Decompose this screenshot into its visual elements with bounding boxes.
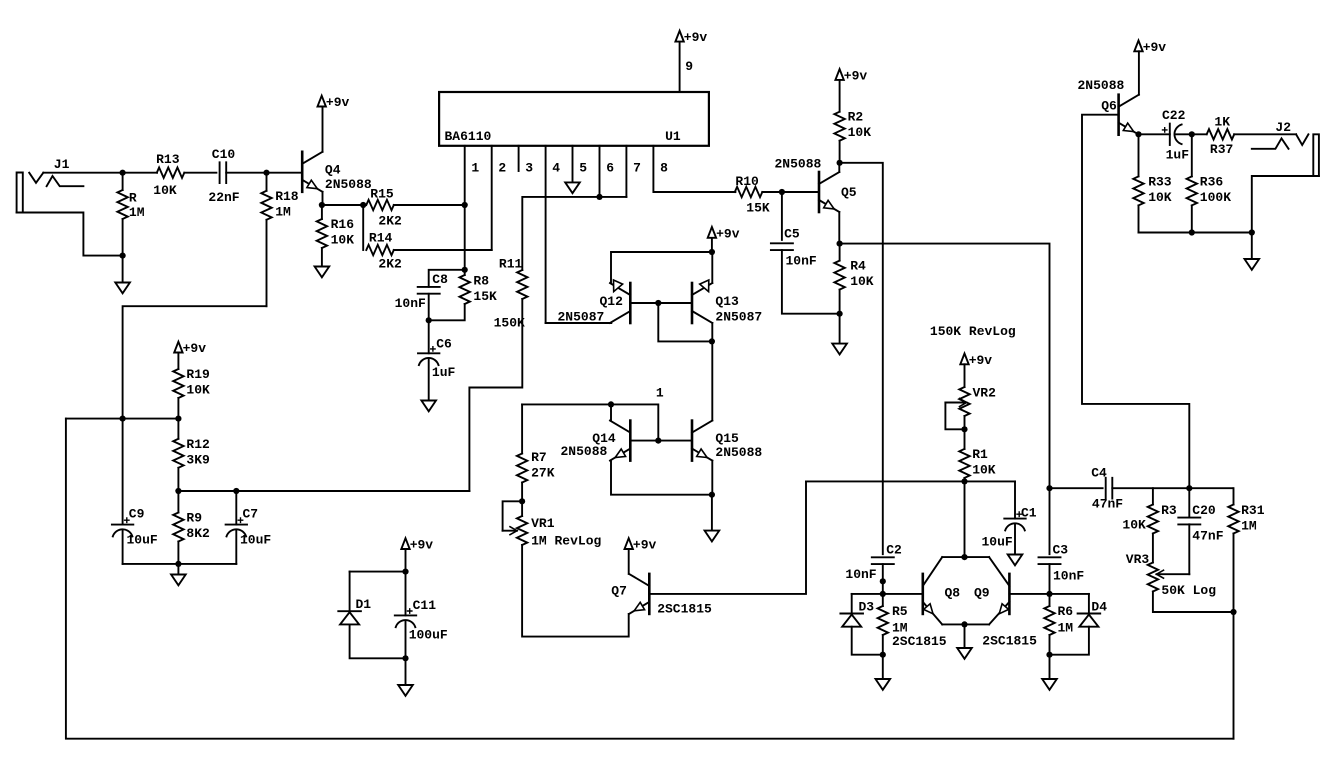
node Q12-Q13 base	[655, 300, 661, 306]
node filter top	[402, 569, 408, 575]
label R1	[972, 447, 996, 478]
node A junction	[120, 170, 126, 176]
node R4 bottom	[837, 311, 843, 317]
svg-text:15K: 15K	[473, 289, 497, 304]
resistor R31	[1228, 488, 1238, 612]
node Q9 base	[1046, 591, 1052, 597]
power +9v Q6	[1134, 40, 1166, 55]
svg-text:9: 9	[685, 59, 693, 74]
svg-text:2SC1815: 2SC1815	[657, 601, 712, 616]
svg-text:10K: 10K	[153, 183, 177, 198]
node R36 bottom	[1189, 229, 1195, 235]
svg-text:1uF: 1uF	[1166, 148, 1190, 163]
svg-text:4: 4	[552, 161, 560, 176]
node emitter rail	[709, 492, 715, 498]
svg-text:2N5088: 2N5088	[325, 177, 372, 192]
resistor R5	[878, 594, 888, 655]
pin 6	[600, 146, 615, 197]
svg-text:7: 7	[633, 161, 641, 176]
wire LFO node horizontal	[806, 480, 1015, 482]
wire Q13 collector to Q15 collector	[711, 323, 713, 421]
svg-text:+9v: +9v	[684, 30, 708, 45]
svg-text:D1: D1	[356, 597, 372, 612]
label C11	[409, 598, 448, 643]
label R8	[473, 273, 497, 304]
ground Q14-Q15	[705, 495, 720, 542]
label R7	[531, 450, 555, 481]
node C5 top	[779, 189, 785, 195]
connector J1 tip contact	[29, 173, 43, 183]
node C2 below	[880, 578, 886, 584]
resistor R6	[1044, 594, 1054, 655]
label R3	[1122, 503, 1177, 533]
resistor R33	[1133, 134, 1143, 232]
wire Q5 collector	[838, 163, 840, 172]
label C3	[1053, 543, 1085, 584]
label C9	[127, 506, 158, 547]
power +9v R19	[174, 341, 206, 356]
svg-text:10K: 10K	[1148, 190, 1172, 205]
label net 1	[656, 386, 664, 401]
transistor Q8	[923, 557, 942, 624]
resistor R7	[517, 404, 527, 501]
label D1	[356, 597, 372, 612]
svg-text:2SC1815: 2SC1815	[982, 633, 1037, 648]
svg-text:1M: 1M	[1058, 621, 1074, 636]
connector J1 body	[17, 173, 23, 213]
svg-text:+9v: +9v	[410, 538, 434, 553]
svg-text:10nF: 10nF	[1053, 569, 1084, 584]
wire Q6 base feedback	[1082, 115, 1189, 489]
svg-text:10uF: 10uF	[982, 534, 1013, 549]
resistor R4	[834, 244, 844, 314]
node R6 bottom	[1046, 652, 1052, 658]
svg-text:R15: R15	[370, 186, 394, 201]
wire Q4 collector to +9v	[322, 107, 324, 152]
wire J2 sleeve	[1252, 176, 1319, 233]
node Q5 emitter	[837, 241, 843, 247]
svg-text:47nF: 47nF	[1092, 497, 1123, 512]
label C8	[395, 272, 449, 311]
wire pair top rail	[942, 556, 989, 558]
label Q15	[715, 431, 762, 460]
transistor Q12	[610, 280, 630, 323]
wire J1 tip to node A	[43, 172, 157, 174]
wire Q12 collector to pin4	[546, 322, 611, 324]
node Q5 collector	[837, 160, 843, 166]
svg-text:8K2: 8K2	[186, 526, 210, 541]
ground R9	[171, 564, 186, 585]
svg-text:27K: 27K	[531, 466, 555, 481]
transistor Q15	[692, 421, 712, 461]
svg-text:Q7: Q7	[611, 584, 627, 599]
svg-text:8: 8	[660, 161, 668, 176]
label R37	[1210, 114, 1233, 157]
svg-text:J1: J1	[54, 157, 70, 172]
connector J2 ring contact	[1252, 138, 1289, 148]
wire left rail	[66, 419, 1234, 739]
svg-text:Q9: Q9	[974, 586, 990, 601]
transistor Q4	[302, 152, 322, 192]
label Q12	[558, 294, 624, 324]
svg-text:Q6: Q6	[1101, 98, 1117, 113]
svg-text:3: 3	[525, 161, 533, 176]
transistor Q13	[692, 280, 712, 323]
resistor R19	[173, 353, 183, 419]
svg-text:1M: 1M	[129, 205, 145, 220]
node C10-R18	[263, 170, 269, 176]
svg-text:R13: R13	[156, 152, 180, 167]
label VR1	[531, 516, 601, 549]
label J1	[54, 157, 70, 172]
label R33	[1148, 175, 1172, 206]
ground C1	[1008, 555, 1023, 566]
svg-text:1M: 1M	[275, 205, 291, 220]
svg-text:+9v: +9v	[183, 341, 207, 356]
svg-text:J2: J2	[1275, 120, 1291, 135]
wire J1 sleeve to ground node	[17, 213, 123, 256]
svg-text:VR1: VR1	[531, 516, 555, 531]
node R12 bottom	[175, 488, 181, 494]
svg-text:2N5088: 2N5088	[561, 444, 608, 459]
op-amp U1 BA6110 body	[439, 92, 709, 146]
svg-text:2: 2	[498, 161, 506, 176]
wire Q15 emitter	[711, 461, 713, 495]
resistor R13	[157, 168, 217, 178]
node C7 top	[233, 488, 239, 494]
ground R16	[315, 267, 330, 278]
svg-text:47nF: 47nF	[1192, 529, 1223, 544]
capacitor C8	[418, 270, 465, 321]
wire filter top to D1	[350, 571, 406, 573]
wire volume to bottom rail	[1233, 612, 1235, 739]
power +9v mirror	[708, 226, 740, 252]
resistor R18	[261, 173, 271, 307]
node VR2 bottom	[961, 426, 967, 432]
diode D1	[338, 572, 405, 659]
resistor R1	[959, 429, 969, 481]
node R9 bottom	[175, 561, 181, 567]
svg-text:U1: U1	[665, 129, 681, 144]
svg-text:10K: 10K	[848, 125, 872, 140]
capacitor C2	[872, 557, 894, 594]
connector J2 body	[1313, 134, 1319, 176]
wire Q4 emitter to R15 node	[322, 204, 363, 206]
label Q8 type	[892, 634, 947, 649]
svg-text:22nF: 22nF	[208, 190, 239, 205]
svg-text:R16: R16	[331, 217, 355, 232]
svg-text:1: 1	[656, 386, 664, 401]
pin 9	[680, 42, 694, 92]
label C1	[982, 506, 1037, 550]
wire C9 to ground rail	[123, 563, 237, 565]
svg-text:C4: C4	[1091, 465, 1107, 480]
svg-text:R11: R11	[499, 257, 523, 272]
wire output ground rail	[1139, 232, 1252, 234]
svg-text:150K: 150K	[494, 316, 525, 331]
wire base node to Q13 collector	[658, 303, 712, 341]
svg-text:VR2: VR2	[973, 386, 997, 401]
svg-text:2SC1815: 2SC1815	[892, 634, 947, 649]
svg-text:C5: C5	[784, 227, 800, 242]
svg-text:2K2: 2K2	[378, 214, 402, 229]
svg-text:10nF: 10nF	[395, 296, 426, 311]
label J2	[1275, 120, 1291, 135]
svg-text:R19: R19	[186, 367, 210, 382]
svg-text:C11: C11	[413, 598, 437, 613]
svg-text:150K RevLog: 150K RevLog	[930, 324, 1016, 339]
svg-text:50K Log: 50K Log	[1161, 583, 1216, 598]
ground filter	[398, 658, 413, 696]
resistor R8	[429, 270, 470, 321]
label VR2 value	[930, 324, 1016, 339]
capacitor C10	[220, 162, 267, 183]
svg-text:R9: R9	[186, 511, 202, 526]
svg-text:+9v: +9v	[969, 353, 993, 368]
label Q5	[775, 156, 857, 200]
power +9v R2	[835, 68, 867, 83]
transistor Q7	[629, 574, 649, 614]
node J2 sleeve ground	[1249, 229, 1255, 235]
resistor R	[117, 173, 127, 256]
label Q14	[561, 431, 616, 459]
capacitor C3	[1039, 557, 1061, 594]
svg-text:Q13: Q13	[715, 294, 739, 309]
svg-text:+9v: +9v	[1143, 40, 1167, 55]
label Q7	[611, 584, 712, 617]
svg-text:Q12: Q12	[600, 294, 624, 309]
svg-text:C6: C6	[436, 336, 452, 351]
ground R6	[1042, 655, 1057, 690]
wire pin6-7 to R11	[522, 197, 626, 270]
svg-text:C22: C22	[1162, 108, 1186, 123]
wire bias node horizontal	[66, 418, 178, 420]
label Q9 type	[982, 633, 1037, 648]
svg-text:+9v: +9v	[844, 68, 868, 83]
label C5	[784, 227, 817, 269]
diode D3	[840, 594, 882, 655]
capacitor C20	[1178, 488, 1200, 524]
svg-text:10K: 10K	[850, 274, 874, 289]
svg-text:Q5: Q5	[841, 185, 857, 200]
svg-text:R8: R8	[473, 273, 489, 288]
label D4	[1091, 599, 1107, 614]
potentiometer VR2	[945, 364, 969, 429]
svg-text:R31: R31	[1241, 503, 1265, 518]
capacitor C4	[1106, 478, 1233, 499]
label R10	[735, 174, 770, 215]
transistor Q9	[989, 557, 1009, 624]
svg-text:+9v: +9v	[716, 226, 740, 241]
svg-text:1: 1	[471, 161, 479, 176]
label R12	[186, 437, 210, 468]
node Q8 base	[880, 591, 886, 597]
wire Q5 emitter	[838, 212, 840, 244]
wire Q14 base rail	[630, 440, 692, 442]
label R11	[494, 257, 525, 331]
label R31	[1241, 503, 1265, 534]
svg-text:R1: R1	[972, 447, 988, 462]
wire Q14 collector	[610, 404, 612, 420]
svg-text:R4: R4	[850, 258, 866, 273]
node pair emitter	[961, 621, 967, 627]
resistor R10	[735, 187, 819, 197]
potentiometer VR1	[503, 501, 528, 545]
node volume bottom	[1230, 609, 1236, 615]
node R19 bottom	[175, 416, 181, 422]
label Q4	[325, 162, 372, 192]
label C6	[432, 336, 456, 379]
svg-text:C7: C7	[243, 506, 259, 521]
wire Q9 base	[1009, 593, 1089, 595]
node pin6	[596, 194, 602, 200]
wire R18 bottom to bias node	[123, 306, 267, 418]
label R14	[369, 231, 402, 272]
svg-text:10K: 10K	[186, 383, 210, 398]
pin 2	[492, 146, 507, 250]
resistor R9	[173, 491, 183, 564]
resistor R3	[1148, 488, 1158, 562]
svg-text:10K: 10K	[331, 233, 355, 248]
node C9 top	[120, 416, 126, 422]
wire R12 node to R11	[178, 490, 469, 492]
power +9v VR2	[960, 353, 992, 368]
svg-text:100K: 100K	[1200, 190, 1231, 205]
label D3	[859, 599, 875, 614]
svg-text:R33: R33	[1148, 175, 1172, 190]
wire C10 node to Q4 base	[267, 172, 303, 174]
power +9v D1	[401, 538, 433, 553]
capacitor C22	[1139, 124, 1192, 145]
capacitor C9	[112, 419, 133, 564]
node R15-R14 left	[360, 202, 366, 208]
capacitor C11	[395, 572, 416, 659]
resistor R12	[173, 419, 183, 491]
label C20	[1192, 503, 1223, 544]
wire Q4 emitter down	[322, 192, 324, 205]
svg-text:R3: R3	[1161, 503, 1177, 518]
svg-text:C20: C20	[1192, 503, 1216, 518]
node Q14-Q15 base	[655, 438, 661, 444]
svg-text:1K: 1K	[1214, 114, 1230, 129]
wire +9v rail Q12-Q13	[611, 251, 712, 253]
svg-text:Q15: Q15	[715, 431, 739, 446]
node Q4 emitter	[319, 202, 325, 208]
svg-text:R12: R12	[186, 437, 210, 452]
svg-text:1M RevLog: 1M RevLog	[531, 534, 601, 549]
wire Q6 collector	[1138, 51, 1140, 94]
wire pair bottom rail	[942, 623, 989, 625]
svg-text:R10: R10	[735, 174, 759, 189]
svg-text:15K: 15K	[746, 201, 770, 216]
transistor Q6	[1119, 95, 1139, 135]
svg-text:2K2: 2K2	[378, 257, 402, 272]
label C10	[208, 147, 239, 205]
wire VR1 bottom to Q7 emitter	[522, 545, 629, 637]
node filter bottom	[402, 655, 408, 661]
svg-text:1uF: 1uF	[432, 365, 456, 380]
pin 3	[519, 146, 534, 176]
svg-text:1M: 1M	[892, 621, 908, 636]
resistor R2	[834, 80, 844, 163]
label VR2	[973, 386, 997, 401]
ground R5	[876, 655, 891, 690]
pin 8	[653, 146, 735, 192]
svg-text:100uF: 100uF	[409, 628, 448, 643]
node below R	[120, 253, 126, 259]
resistor R11	[469, 270, 527, 491]
label R9	[186, 511, 210, 542]
svg-text:3K9: 3K9	[186, 452, 210, 467]
label R15	[370, 186, 402, 228]
transistor Q14	[610, 421, 630, 461]
svg-text:10K: 10K	[972, 462, 996, 477]
label R18	[275, 189, 299, 219]
resistor R37	[1192, 129, 1296, 139]
label R2	[848, 110, 872, 141]
label C22	[1162, 108, 1189, 163]
svg-text:5: 5	[579, 161, 587, 176]
svg-text:Q4: Q4	[325, 162, 341, 177]
capacitor C7	[226, 491, 247, 564]
svg-text:10uF: 10uF	[127, 533, 158, 548]
svg-text:C9: C9	[129, 506, 145, 521]
transistor Q5	[819, 172, 839, 212]
ground R4	[832, 314, 847, 355]
diode D4	[1050, 594, 1101, 655]
svg-text:R: R	[129, 191, 137, 206]
wire Q7 base to LFO node	[649, 481, 806, 594]
node C3-C4	[1046, 485, 1052, 491]
wire Q6 emitter	[1138, 133, 1140, 135]
wire Q12 base to node	[630, 302, 658, 304]
node C20 top	[1186, 485, 1192, 491]
label Q9	[974, 586, 990, 601]
resistor R16	[317, 205, 327, 267]
node +9v rail	[709, 249, 715, 255]
resistor R15	[366, 200, 464, 210]
wire Q5 collector to C2	[840, 163, 883, 554]
svg-text:Q8: Q8	[945, 586, 961, 601]
label R4	[850, 258, 874, 289]
svg-text:2N5088: 2N5088	[715, 445, 762, 460]
svg-text:R37: R37	[1210, 142, 1233, 157]
wire Q14 emitter to rail	[611, 461, 712, 495]
ground J2	[1245, 233, 1260, 270]
label R13	[153, 152, 179, 198]
svg-text:10nF: 10nF	[786, 254, 817, 269]
wire C3 to C4	[1050, 487, 1103, 489]
power +9v Q7	[625, 538, 657, 553]
label Q13	[715, 294, 762, 324]
svg-text:C3: C3	[1053, 543, 1069, 558]
wire Q7 collector to +9v	[628, 549, 630, 574]
svg-text:R2: R2	[848, 110, 864, 125]
svg-text:10nF: 10nF	[845, 567, 876, 582]
svg-text:2N5088: 2N5088	[1078, 78, 1125, 93]
svg-text:R5: R5	[892, 604, 908, 619]
label Q6	[1078, 78, 1125, 114]
wire Q13 base	[658, 302, 692, 304]
pin 5	[573, 146, 588, 183]
svg-text:C1: C1	[1021, 506, 1037, 521]
svg-text:R7: R7	[531, 450, 547, 465]
wire Q12 emitter	[610, 252, 612, 283]
node pair top	[961, 554, 967, 560]
node R5 bottom	[880, 652, 886, 658]
svg-text:C8: C8	[432, 272, 448, 287]
label C7	[240, 506, 271, 547]
